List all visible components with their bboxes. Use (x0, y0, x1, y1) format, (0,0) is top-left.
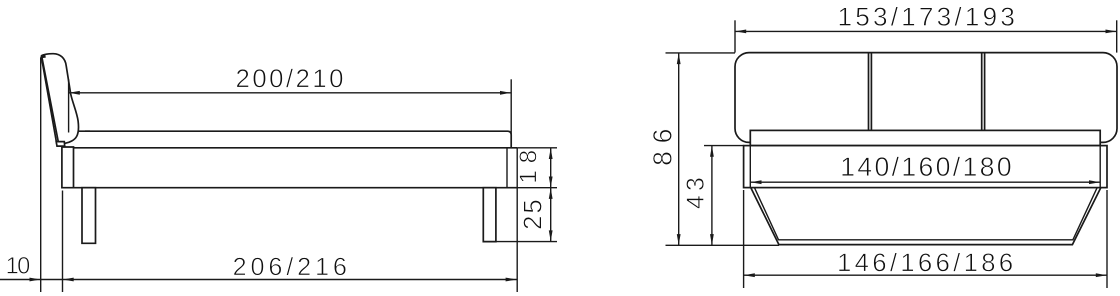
extension line rail top to 18-dim (y=147.8) (517, 147, 557, 149)
label 25 (rotated) (523, 200, 541, 228)
frame rail (front view) (744, 146, 1107, 188)
side rail top edge (74, 147, 518, 149)
dimension line 18+25 (x=550.7) (550, 148, 552, 242)
extension line rail bottom to 18/25 (y=187.7) (517, 187, 557, 189)
extension line 86/43 bottom (y=245.3) (666, 244, 780, 246)
extension line post left (x=62.5) (62, 191, 64, 293)
arrowhead up 86 (677, 53, 681, 64)
headboard panel top cap (40, 54, 46, 59)
label 140/160/180 (842, 157, 1010, 177)
headboard front post (62, 147, 74, 188)
arrowhead left 140 dim (751, 180, 762, 184)
extension line 86-dim top (y=52.9) (666, 52, 736, 54)
arrowhead down 86 (677, 234, 681, 245)
front leg (82, 188, 96, 244)
dimension line 43 (x=711.9) (711, 146, 713, 246)
label 146/166/186 (839, 253, 1012, 272)
dimension line 146/166/186 (y=275.2) (744, 274, 1107, 276)
rail right cap inner line (1099, 146, 1101, 188)
arrowhead outside right-pointing at 40.7 (30, 278, 41, 282)
headboard cushion divider 2 (double line) (981, 53, 983, 130)
arrowhead up 43 (710, 146, 714, 157)
dimension line 86 (x=678.7) (678, 53, 680, 245)
bed platform surface left part (drawn under cushion) (72, 130, 90, 132)
label 10 (7, 257, 29, 274)
arrowhead left 146 dim (744, 273, 755, 277)
arrowhead right-pointing at 516.8 (506, 278, 517, 282)
headboard (front view, rounded) (735, 53, 1117, 143)
dimension line 153/173/193 (y=31.4) (735, 30, 1117, 32)
rail left cap inner line (749, 146, 751, 188)
side rail bottom edge (62, 187, 517, 189)
headboard panel foot block (56, 142, 64, 147)
label 86 (rotated) (653, 130, 672, 165)
extension line bottom-right (x=1107) (1106, 190, 1108, 288)
extension line headboard left top (x=735) (734, 20, 736, 52)
arrowhead right of 200/210 (500, 91, 511, 95)
extension line bottom-left (x=743.6) (743, 190, 745, 288)
headboard cushion (side view) (42, 54, 79, 144)
extension line floor level (y=241.6) (496, 241, 557, 243)
headboard back panel (slanted) (41, 57, 56, 144)
arrowhead left of 200/210 (69, 91, 80, 95)
label 43 (rotated) (686, 178, 704, 208)
extension line headboard right top (x=1116.7) (1116, 20, 1118, 52)
side rail right end cap inner line (506, 148, 508, 188)
rear leg (483, 188, 496, 242)
dimension line 206/216 + 10 (y=279.5) (0, 279, 517, 281)
arrowhead right 146 dim (1096, 273, 1107, 277)
arrowhead left of 153 dim (735, 30, 746, 34)
headboard cushion divider 1 (double line) (868, 53, 870, 130)
arrowhead down at 241.6 (549, 230, 553, 241)
extension line rail right outer (x=517.2) (516, 148, 518, 292)
arrowhead right 140 dim (1089, 180, 1100, 184)
label 200/210 (237, 69, 343, 88)
extension line at rear of headboard panel (x=40.7) (40, 58, 42, 293)
extension line cushion face (x=68.6) (68, 80, 70, 133)
label 206/216 (234, 257, 346, 275)
label 18 (rotated) (519, 151, 536, 182)
label 153/173/193 (840, 7, 1014, 26)
mattress band (750, 130, 1100, 145)
arrowheads at 187.7 (549, 177, 553, 188)
platform trapezoid inner (755, 188, 1097, 240)
arrowhead left-pointing at 62.5 (63, 278, 74, 282)
platform trapezoid outer (751, 188, 1101, 245)
extension line 43-dim top (y=145.6) (704, 145, 744, 147)
bed platform surface (slab with rounded foot corner) (85, 131, 511, 148)
arrowhead up at 147.8 (549, 148, 553, 159)
dimension line 200/210 (69, 92, 512, 94)
extension line foot end top (x=511.2) (510, 79, 512, 148)
arrowhead right of 153 dim (1106, 30, 1117, 34)
arrowhead down 43 (710, 234, 714, 245)
dimension line 140/160/180 (y=182.2) (750, 181, 1100, 183)
